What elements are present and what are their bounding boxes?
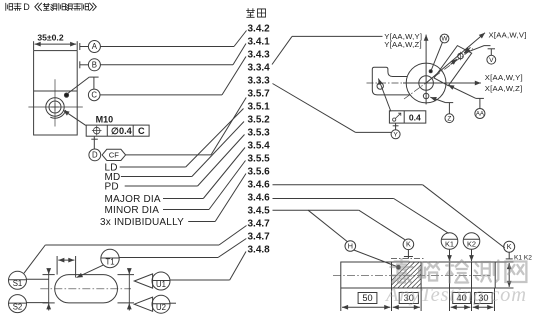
hatch right boundary — [420, 262, 422, 288]
balloon Z — [445, 114, 454, 123]
left dim arrow to top edge — [48, 269, 50, 275]
balloon C — [88, 89, 100, 101]
leader FCF to bracket target — [378, 79, 391, 112]
horizontal centerline of hole — [28, 106, 82, 108]
dim line 50 — [342, 306, 390, 308]
flag K pole and cap — [407, 250, 409, 259]
branch to balloon K — [359, 210, 405, 240]
leader from section 3.4.6 (row13) — [273, 184, 423, 186]
extension line below bar at x=421.1 — [420, 288, 422, 311]
diagonal to K1 — [394, 199, 449, 234]
flag AA: cap, pole, balloon, leader — [476, 97, 484, 99]
svg-text:3.4.7: 3.4.7 — [248, 218, 271, 229]
slash from MAJOR DIA to section list — [203, 148, 245, 199]
svg-text:MINOR DIA: MINOR DIA — [105, 205, 160, 216]
svg-text:K2: K2 — [467, 240, 476, 249]
svg-text:AA: AA — [476, 112, 484, 118]
datum target dot on boss — [429, 70, 432, 73]
slash from LD to section list — [186, 109, 244, 168]
flag D: pole from FCF, cap, balloon — [93, 136, 95, 149]
svg-text:3.5.2: 3.5.2 — [248, 114, 271, 125]
svg-text:50: 50 — [362, 293, 372, 303]
svg-text:3.4.5: 3.4.5 — [248, 205, 271, 216]
watermark 嘉峪检测网 (drawn as gray glyph strokes) — [391, 260, 527, 283]
section list header 章节 — [246, 8, 265, 18]
leader dash from MD — [121, 176, 192, 178]
leader from section 3.4.6 (row14) — [273, 198, 394, 200]
hatching (45° section lines) — [381, 261, 462, 291]
extension line below bar at x=494.5 — [494, 288, 496, 311]
svg-text:3x INDIBIDUALLY: 3x INDIBIDUALLY — [100, 217, 184, 228]
svg-text:3.3.3: 3.3.3 — [248, 75, 271, 86]
dash-dot bar above hatch — [391, 258, 425, 260]
slash to section 3.4.7 (row16) — [219, 226, 247, 246]
svg-text:PD: PD — [105, 181, 119, 192]
svg-text:Y[AA,W,Z]: Y[AA,W,Z] — [384, 40, 422, 49]
S1 riser — [24, 245, 45, 273]
svg-text:0.4: 0.4 — [409, 112, 421, 122]
K2 extension below bar — [471, 288, 473, 311]
balloon B — [88, 59, 100, 71]
bar centerline — [333, 274, 490, 276]
extension of bar bottom edge — [495, 287, 513, 289]
boxed dimension 30 (first) — [399, 293, 418, 304]
svg-text:C: C — [138, 126, 145, 136]
leader Z to boss target — [430, 97, 445, 102]
svg-text:3.5.1: 3.5.1 — [248, 101, 271, 112]
svg-text:X[AA,W,V]: X[AA,W,V] — [489, 30, 527, 39]
K1 arrow to bar surface — [449, 249, 451, 261]
svg-text:MAJOR DIA: MAJOR DIA — [105, 194, 161, 205]
title: 附录D 《基准标注旗谱》 (drawn as glyph strokes, appendix D heading) — [6, 2, 97, 12]
svg-text:M10: M10 — [96, 115, 114, 125]
extension of slot bottom edge (right) — [118, 302, 135, 304]
extension line right — [76, 41, 78, 50]
U1 leader — [170, 279, 230, 281]
boxed dimension 40 — [453, 293, 471, 304]
diagonal to right balloon K — [423, 185, 505, 248]
X[AA,W,V] axis arrow — [426, 33, 485, 83]
svg-text:3.4.7: 3.4.7 — [248, 231, 271, 242]
S1 horizontal leader — [45, 244, 219, 246]
slash to section 3.4.3 — [222, 57, 246, 95]
svg-text:K: K — [406, 240, 411, 249]
arm axis dash-dot — [404, 49, 473, 100]
bar part outline — [341, 262, 495, 288]
slash from 3x INDIBIDUALLY to section list — [215, 174, 246, 222]
flag Y: pole, tick, balloon — [395, 123, 397, 130]
svg-text:K1 K2: K1 K2 — [514, 254, 532, 261]
dim line 30 — [393, 306, 420, 308]
right dim line body — [128, 275, 130, 303]
slot (obround) part outline — [55, 275, 118, 303]
extension of slot top edge (right) — [118, 274, 135, 276]
leader from section 3.4.5 — [273, 209, 359, 211]
svg-text:3.5.4: 3.5.4 — [248, 140, 271, 151]
svg-text:K: K — [507, 242, 512, 251]
leader dash from MAJOR DIA — [163, 198, 203, 200]
balloon K (right) — [504, 241, 515, 252]
flag C: mast cap, pole, balloon — [89, 76, 98, 78]
svg-text:W: W — [441, 36, 448, 43]
svg-text:3.4.1: 3.4.1 — [248, 36, 271, 47]
vertical tick through arm target — [460, 52, 462, 60]
balloon AA — [475, 109, 485, 119]
balloon K (middle) — [403, 239, 414, 250]
arm (rotated rectangle) — [434, 46, 472, 86]
svg-text:AnyTesting.com: AnyTesting.com — [384, 284, 527, 306]
arrow into arm target (upper) — [464, 47, 470, 53]
svg-text:3.5.3: 3.5.3 — [248, 127, 271, 138]
S2 chord leader — [27, 302, 50, 304]
leader dash from 3x INDIBIDUALLY — [188, 221, 215, 223]
svg-text:3.5.6: 3.5.6 — [248, 166, 271, 177]
flag K(right) pole, cap — [508, 252, 510, 259]
svg-text:A: A — [92, 42, 98, 51]
K1 extension through bar — [449, 262, 451, 288]
svg-text:35±0.2: 35±0.2 — [37, 33, 63, 43]
balloon Y — [391, 130, 400, 139]
dimension line 35±0.2 — [35, 43, 77, 45]
slash to section 3.4.2 — [234, 31, 247, 47]
balloon H — [345, 241, 356, 252]
extension line below bar at x=391.5 — [391, 288, 393, 311]
thread arc — [50, 110, 66, 118]
leader from CF — [126, 154, 211, 156]
extension of bar top edge — [495, 261, 513, 263]
flag CF hexagon — [102, 149, 126, 160]
datum target U2 — [152, 295, 170, 313]
leader dash from LD — [120, 166, 186, 168]
datum target circle on bracket face — [377, 83, 383, 89]
boxed dimension 30 (second) — [475, 293, 493, 304]
slash from section 3.3.4 — [272, 36, 292, 64]
leader dash from MINOR DIA — [163, 209, 209, 211]
slash from PD to section list — [198, 135, 245, 187]
X axis line — [403, 82, 481, 84]
leader to Y[AA,W,Y] label — [292, 35, 383, 37]
svg-text:3.3.4: 3.3.4 — [248, 62, 271, 73]
svg-text:K1: K1 — [445, 240, 454, 249]
svg-text:∅0.4: ∅0.4 — [111, 126, 133, 136]
leader to balloon Y — [356, 131, 391, 133]
bracket centerline — [367, 82, 405, 84]
S1 chord leader — [27, 278, 50, 280]
flag B: attach tick, pole, balloon — [79, 61, 81, 68]
branch to balloon H — [308, 210, 347, 241]
pennant of U2 — [134, 297, 152, 311]
leader from A — [100, 46, 234, 48]
extension line below bar at x=340.8 — [340, 288, 342, 311]
svg-text:C: C — [91, 91, 97, 100]
svg-text:D: D — [92, 151, 98, 160]
extension of slot top edge (left) — [43, 274, 55, 276]
boss outer circle — [406, 63, 446, 103]
arrow into arm target (lower) — [451, 59, 457, 65]
svg-text:3.4.8: 3.4.8 — [248, 244, 271, 255]
T1 leader — [119, 257, 218, 259]
svg-text:3.4.2: 3.4.2 — [248, 23, 271, 34]
leader H to dot — [354, 250, 397, 267]
slash to section 3.4.8 — [230, 252, 246, 281]
datum target S2 — [9, 295, 27, 313]
svg-text:3.5.7: 3.5.7 — [248, 88, 271, 99]
hole inner circle (tapped M10) — [49, 101, 61, 113]
hole outer circle (counterbore) — [46, 98, 64, 116]
datum target circle on boss bottom — [423, 93, 429, 99]
extension line left — [33, 41, 35, 50]
slash to section 3.4.1 — [233, 44, 246, 65]
datum target U1 — [152, 272, 170, 290]
svg-text:U2: U2 — [156, 303, 166, 312]
svg-text:U1: U1 — [156, 280, 166, 289]
left dim line body — [48, 275, 50, 303]
flag A: attach tick, pole, balloon — [79, 43, 81, 50]
svg-text:S1: S1 — [13, 279, 23, 288]
balloon A — [88, 41, 100, 53]
feature control frame [runout|0.4] — [389, 111, 425, 123]
svg-text:Y: Y — [393, 132, 398, 139]
leader dash from PD — [125, 185, 198, 187]
extension of slot bottom edge (left) — [43, 302, 55, 304]
datum target circle on arm — [458, 53, 464, 59]
svg-text:3.4.6: 3.4.6 — [248, 179, 271, 190]
vertical centerline of hole — [54, 79, 56, 126]
left dim arrow to bottom edge — [48, 303, 50, 310]
top small dimension line — [58, 259, 74, 261]
svg-text:S2: S2 — [13, 302, 23, 311]
svg-text:H: H — [348, 241, 353, 250]
slot centerline — [40, 288, 131, 290]
pennant of U1 — [134, 274, 152, 288]
K1 extension below bar — [449, 288, 451, 311]
hatch left boundary — [391, 262, 393, 288]
Y axis arrow — [425, 35, 427, 105]
datum target K1 — [441, 233, 458, 250]
leader AA to boss edge — [448, 85, 476, 98]
top dim extension line right — [75, 256, 77, 278]
flag Z: cap, pole, balloon, leader — [446, 102, 454, 104]
hole center cross — [51, 103, 58, 110]
leader from B — [100, 64, 233, 66]
K2 arrow to bar surface — [471, 249, 473, 261]
svg-text:3.4.3: 3.4.3 — [248, 49, 271, 60]
dim line 30 (second) — [473, 306, 494, 308]
right dim arrow to top edge — [128, 269, 130, 275]
dim line 40 — [451, 306, 471, 308]
T1 arrow to slot top edge — [77, 265, 104, 278]
top dim extension line left — [56, 256, 58, 275]
slash to section 3.5.7 — [211, 98, 246, 155]
slash to section 3.4.7 (row17) — [218, 239, 246, 258]
U2 chord stub — [170, 302, 176, 304]
internal edge of plate — [34, 90, 78, 92]
slash from MD to section list — [192, 122, 244, 177]
part outline: rectangular plate, top-left view — [34, 51, 78, 135]
svg-text:3.5.5: 3.5.5 — [248, 153, 271, 164]
leader W to dot — [431, 42, 442, 70]
svg-text:3.4.6: 3.4.6 — [248, 192, 271, 203]
slash from MINOR DIA to section list — [209, 161, 246, 210]
right dim arrow to bottom edge — [128, 303, 130, 310]
feature control frame [position|Ø0.4|C] — [86, 125, 149, 136]
leader from target dot to flag C mast — [68, 77, 89, 93]
leader from C — [100, 94, 222, 96]
svg-text:B: B — [92, 60, 97, 69]
flag V: leader, cap, pole, balloon — [464, 46, 490, 54]
datum target S1 — [9, 271, 27, 289]
balloon V — [487, 55, 496, 64]
datum target K2 — [463, 233, 480, 250]
datum target dot (filled) — [64, 93, 68, 97]
boss bore circle — [419, 76, 434, 91]
balloon W — [440, 34, 449, 43]
svg-text:X[AA,W,Y]: X[AA,W,Y] — [485, 73, 523, 82]
svg-text:T1: T1 — [105, 257, 114, 266]
diagonal from section 3.3.3 — [273, 84, 356, 133]
K2 extension through bar — [471, 262, 473, 288]
svg-text:CF: CF — [109, 151, 119, 160]
balloon D — [89, 149, 101, 161]
bracket part outline — [372, 67, 410, 95]
boxed dimension 50 — [358, 293, 377, 304]
leader arrow from FCF to hole — [63, 110, 86, 125]
svg-text:V: V — [489, 57, 494, 64]
height dimension line — [508, 263, 510, 287]
svg-text:Z: Z — [447, 115, 451, 122]
datum target T1 — [101, 249, 119, 267]
svg-text:D: D — [23, 2, 30, 12]
svg-text:X[AA,W,Z]: X[AA,W,Z] — [485, 84, 523, 93]
datum target dot in hatch — [397, 265, 401, 269]
